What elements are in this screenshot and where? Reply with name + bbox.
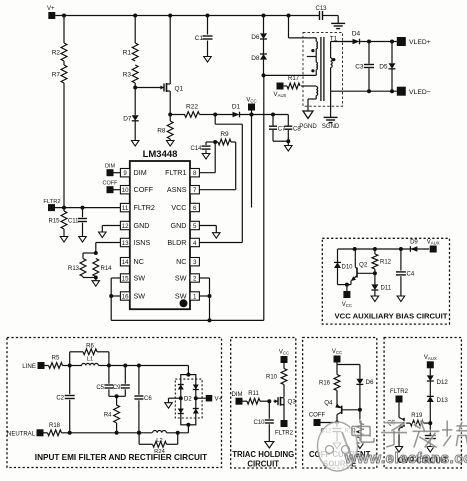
node VAUX pad aux <box>277 83 284 90</box>
svg-text:R6: R6 <box>86 344 94 350</box>
svg-text:VAUX: VAUX <box>427 240 440 246</box>
svg-text:C10: C10 <box>253 420 265 426</box>
wire to bridge <box>187 366 189 375</box>
diode D10 <box>337 249 339 262</box>
node L1 right <box>107 364 111 368</box>
svg-text:8: 8 <box>193 170 197 177</box>
svg-text:R17: R17 <box>288 76 300 82</box>
capacitor C13 <box>319 11 321 20</box>
svg-text:10: 10 <box>122 187 129 194</box>
wire gate <box>135 87 161 89</box>
svg-text:VCC AUXILIARY BIAS CIRCUIT: VCC AUXILIARY BIAS CIRCUIT <box>335 312 448 321</box>
diode D7 <box>134 88 136 116</box>
wire FLTR1 pin8 stub <box>199 172 215 174</box>
wire ASNS riser pin7 <box>235 142 237 190</box>
svg-text:SGND: SGND <box>322 124 340 130</box>
svg-text:LINE: LINE <box>22 363 36 370</box>
resistor R1 <box>134 16 136 44</box>
pin 6 VCC <box>190 203 199 211</box>
svg-text:D13: D13 <box>437 397 449 404</box>
svg-text:GND: GND <box>134 221 150 230</box>
resistor R14 <box>93 259 99 277</box>
capacitor C11 <box>82 208 84 218</box>
svg-text:D4: D4 <box>352 31 361 38</box>
svg-text:9: 9 <box>123 170 127 177</box>
wire R3 to Q1 gate <box>134 83 136 88</box>
svg-text:Q4: Q4 <box>324 400 333 407</box>
resistor R24 <box>137 431 141 435</box>
svg-text:R10: R10 <box>266 375 278 381</box>
ground bridge <box>165 403 173 409</box>
pin 13 ISNS <box>120 238 129 246</box>
svg-text:C4: C4 <box>407 272 415 278</box>
svg-text:D2: D2 <box>184 396 192 403</box>
diode D6 coff <box>359 365 361 379</box>
svg-text:4: 4 <box>193 240 197 247</box>
svg-text:D11: D11 <box>381 286 392 292</box>
ground C10 <box>265 442 274 449</box>
node C3 top <box>367 40 371 44</box>
svg-text:R13: R13 <box>68 266 80 272</box>
ground OVP cap <box>427 447 435 453</box>
svg-text:Q1: Q1 <box>175 86 184 93</box>
svg-text:D12: D12 <box>437 379 449 386</box>
capacitor C8 <box>287 115 289 126</box>
ground C7 C8 <box>285 146 293 152</box>
diode D13 <box>429 381 431 396</box>
resistor R19 <box>404 422 410 424</box>
pin 14 NC <box>120 258 129 266</box>
wire C7 C8 common <box>273 140 288 142</box>
wire Q5 emitter <box>398 428 400 446</box>
box input EMI filter and rectifier <box>7 338 222 468</box>
ground R8 <box>166 141 174 147</box>
pin 1 marker <box>180 299 188 307</box>
svg-text:L1: L1 <box>87 357 93 363</box>
svg-text:COFF: COFF <box>134 185 154 194</box>
box OVP circuit <box>384 338 461 469</box>
svg-text:TRIAC HOLDING: TRIAC HOLDING <box>232 450 294 459</box>
resistor R8 <box>168 113 172 117</box>
svg-text:5: 5 <box>193 223 197 230</box>
svg-text:DIM: DIM <box>134 168 147 177</box>
resistor R4 <box>116 396 118 405</box>
wire ISNS pin13 <box>96 242 121 244</box>
svg-text:R22: R22 <box>186 104 198 111</box>
node FLTR2 pad triac <box>283 405 285 420</box>
svg-text:D6: D6 <box>366 379 374 386</box>
wire top rail box1 <box>109 365 188 367</box>
ground D11 <box>371 296 379 302</box>
transformer aux winding <box>301 85 316 87</box>
pin 4 BLDR <box>190 238 199 246</box>
svg-text:2: 2 <box>193 275 197 282</box>
svg-text:C1: C1 <box>195 35 204 42</box>
svg-text:SW: SW <box>134 291 146 300</box>
resistor R18 <box>44 432 48 434</box>
svg-text:R11: R11 <box>248 391 259 397</box>
resistor R13 <box>83 252 96 254</box>
svg-text:Q2: Q2 <box>359 262 368 269</box>
pin 1 SW <box>190 292 199 300</box>
node VLED- pad <box>397 87 406 96</box>
svg-text:R24: R24 <box>154 449 165 455</box>
resistor R7 <box>63 61 65 65</box>
svg-text:D10: D10 <box>342 265 354 271</box>
svg-text:LM3448: LM3448 <box>143 149 178 160</box>
wire bias bottom <box>338 284 352 286</box>
svg-text:D9: D9 <box>410 240 418 246</box>
ground D7 <box>131 141 139 147</box>
svg-text:FLTR2: FLTR2 <box>275 431 294 437</box>
resistor R12 <box>374 249 376 254</box>
svg-text:INPUT EMI FILTER AND RECTIFIER: INPUT EMI FILTER AND RECTIFIER CIRCUIT <box>35 453 207 462</box>
ground C4 <box>397 296 405 302</box>
svg-text:C14: C14 <box>190 146 202 152</box>
ground C13 earth <box>331 22 345 24</box>
svg-text:SW: SW <box>175 273 187 282</box>
transistor Q1 <box>160 87 165 89</box>
pin 9 DIM <box>120 169 129 177</box>
ground PGND arrow <box>303 111 313 119</box>
wire VLED- rail <box>331 90 397 92</box>
transistor Q2 <box>354 249 356 267</box>
node primary bottom <box>263 60 265 76</box>
svg-text:VCC: VCC <box>279 350 289 356</box>
svg-text:R19: R19 <box>411 413 423 419</box>
diode D9 <box>410 246 417 252</box>
resistor R22 <box>170 114 185 116</box>
svg-text:11: 11 <box>122 205 129 212</box>
pin 10 COFF <box>120 186 129 194</box>
svg-text:VLED+: VLED+ <box>409 39 431 46</box>
svg-text:R7: R7 <box>52 72 61 79</box>
transformer core <box>320 37 322 101</box>
svg-text:R15: R15 <box>48 219 60 225</box>
inductor L2 <box>153 431 167 433</box>
svg-text:www.elecfans.com: www.elecfans.com <box>344 450 467 467</box>
svg-text:R4: R4 <box>104 413 112 419</box>
resistor R17 <box>287 83 300 89</box>
ground C1 <box>204 57 212 63</box>
svg-text:VLED−: VLED− <box>409 89 431 96</box>
ground R20 <box>356 443 364 449</box>
node NEUTRAL pad <box>37 429 44 436</box>
svg-text:FLTR2: FLTR2 <box>134 203 155 212</box>
node COFF pad coff <box>314 419 321 426</box>
wire primary bottom to D8 node <box>264 74 317 76</box>
svg-text:Q3: Q3 <box>288 399 297 406</box>
transformer T1 box <box>303 33 343 107</box>
node FLTR1 filter junction <box>213 140 217 144</box>
wire Q2 base <box>357 272 375 274</box>
wire SW pins 15 16 <box>111 277 120 279</box>
capacitor OVP <box>429 423 431 435</box>
pin 16 SW <box>120 292 129 300</box>
svg-text:GND: GND <box>171 221 187 230</box>
node V+ bridge pad <box>196 397 206 399</box>
resistor R10 <box>283 363 285 369</box>
svg-text:D5: D5 <box>379 64 388 71</box>
resistor R16 <box>336 365 338 375</box>
ground pin12 <box>99 232 107 238</box>
node D5 top <box>390 40 394 44</box>
svg-text:SW: SW <box>134 273 146 282</box>
pin 12 GND <box>120 221 129 229</box>
ground SGND <box>330 91 332 117</box>
transformer secondary winding <box>330 42 332 59</box>
wire bottom rail box1 <box>70 432 153 434</box>
diode D8 <box>263 39 265 54</box>
node L1 left <box>68 364 72 368</box>
wire D13 to R19 node <box>429 402 431 423</box>
resistor R9 <box>215 141 218 143</box>
diode D12 <box>429 368 431 375</box>
capacitor C10 <box>268 401 270 419</box>
wire GND pin5 <box>199 225 216 227</box>
pin 15 SW <box>120 274 129 282</box>
box TRIAC holding circuit <box>231 338 296 469</box>
svg-text:FLTR1: FLTR1 <box>165 168 186 177</box>
capacitor C9 <box>123 364 127 368</box>
node DIM pad triac <box>236 398 243 405</box>
resistor R20 <box>359 410 361 423</box>
svg-text:VCC: VCC <box>246 98 256 104</box>
svg-text:DIM: DIM <box>232 392 243 398</box>
node FLTR2 pad <box>48 204 55 211</box>
node Vcc pad <box>248 104 255 111</box>
transformer primary winding <box>288 16 290 38</box>
svg-text:C3: C3 <box>355 64 364 71</box>
resistor R11 <box>243 400 248 402</box>
svg-text:14: 14 <box>122 259 129 266</box>
node Vcc pad bias <box>346 285 348 291</box>
diode D1 <box>233 112 240 118</box>
svg-text:C11: C11 <box>68 219 79 225</box>
wire FLTR1 riser pin8 <box>214 142 216 173</box>
watermark elecfans logo and text <box>318 421 467 472</box>
node Vcc pad coff <box>334 356 341 363</box>
transistor Q3 <box>274 400 279 402</box>
svg-text:12: 12 <box>122 223 129 230</box>
capacitor C2 <box>69 366 71 395</box>
svg-text:SW: SW <box>175 291 187 300</box>
transistor Q5 <box>398 403 400 418</box>
op-amp U1 LM3448 body <box>130 161 190 309</box>
svg-text:R9: R9 <box>220 131 229 138</box>
pin 2 SW <box>190 274 199 282</box>
transistor Q4 <box>336 402 338 406</box>
node DIM pad <box>107 169 114 176</box>
svg-text:VCC: VCC <box>171 203 186 212</box>
wire GND pin12 <box>102 225 120 227</box>
resistor R3 <box>132 65 138 83</box>
bridge rectifier D2 <box>181 375 196 425</box>
svg-text:D1: D1 <box>232 104 241 111</box>
ground C12 <box>333 443 341 449</box>
svg-text:NC: NC <box>134 257 144 266</box>
svg-text:R12: R12 <box>380 260 392 266</box>
diode D6 <box>263 16 265 34</box>
wire C5 C9 common <box>109 395 125 397</box>
node LINE pad <box>38 362 45 369</box>
pin 11 FLTR2 <box>120 203 129 211</box>
node junction top rail <box>62 14 66 18</box>
capacitor C5 <box>108 366 110 384</box>
pin 8 FLTR1 <box>190 169 199 177</box>
svg-text:ASNS: ASNS <box>167 185 187 194</box>
wire FLTR2 to pin11 <box>55 207 120 209</box>
wire secondary top out <box>331 41 353 43</box>
svg-text:R14: R14 <box>101 266 113 272</box>
diode D4 <box>353 39 360 45</box>
svg-text:R1: R1 <box>123 50 132 57</box>
svg-text:D8: D8 <box>251 55 260 62</box>
capacitor C7 <box>271 113 275 117</box>
svg-text:C9: C9 <box>113 385 121 391</box>
ground pin5 <box>213 233 221 239</box>
pin 5 GND <box>190 221 199 229</box>
svg-text:NEUTRAL: NEUTRAL <box>7 431 36 437</box>
svg-text:NC: NC <box>176 257 186 266</box>
diode D5 <box>391 42 393 64</box>
ground R15 <box>60 237 68 243</box>
wire R7 to FLTR2 node <box>63 83 65 208</box>
node Q3 gate <box>267 399 271 403</box>
svg-text:COFF: COFF <box>103 181 119 187</box>
resistor R5 <box>45 365 49 367</box>
wire VCC riser pin6 <box>251 115 253 208</box>
svg-text:ISNS: ISNS <box>134 238 151 247</box>
ground R13 R14 <box>95 278 97 282</box>
svg-text:16: 16 <box>122 293 129 300</box>
resistor R15 <box>63 208 65 211</box>
svg-text:D6: D6 <box>251 34 260 41</box>
svg-text:R16: R16 <box>319 381 331 387</box>
svg-text:C6: C6 <box>144 396 152 402</box>
wire bridge AC- ground <box>169 397 181 399</box>
node V+ input pad <box>48 12 55 19</box>
capacitor C3 <box>368 42 370 64</box>
resistor R6 <box>69 352 71 366</box>
svg-text:DIM: DIM <box>105 164 116 170</box>
wire BLDR pin4 <box>199 242 242 244</box>
svg-text:VCC: VCC <box>332 349 342 355</box>
svg-text:PGND: PGND <box>299 124 317 130</box>
svg-text:BLDR: BLDR <box>167 238 186 247</box>
node COFF pad <box>107 186 114 193</box>
node SW-R22 junction <box>213 113 217 117</box>
svg-text:VCC: VCC <box>342 302 352 308</box>
wire vcc branch <box>336 363 338 365</box>
svg-text:13: 13 <box>122 240 129 247</box>
svg-text:R8: R8 <box>157 128 166 135</box>
svg-text:V+: V+ <box>47 6 55 12</box>
capacitor C14 <box>206 141 215 143</box>
svg-text:C2: C2 <box>56 396 64 402</box>
capacitor C4 <box>400 249 402 271</box>
pin 7 ASNS <box>190 186 199 194</box>
capacitor C12 <box>336 423 338 428</box>
node Vcc pad triac <box>281 356 288 363</box>
node VLED+ pad <box>397 37 406 46</box>
svg-text:R3: R3 <box>123 72 132 79</box>
inductor L1 <box>70 365 82 367</box>
ground Q5 <box>395 447 403 453</box>
svg-text:R5: R5 <box>52 356 60 362</box>
capacitor C1 <box>207 16 209 35</box>
svg-text:C13: C13 <box>315 6 327 12</box>
svg-text:15: 15 <box>122 275 129 282</box>
capacitor C6 <box>137 364 141 368</box>
svg-text:7: 7 <box>193 187 197 194</box>
wire V+ top rail <box>55 15 319 17</box>
svg-text:VAUX: VAUX <box>274 92 287 98</box>
node VAUX pad bias <box>430 246 437 253</box>
diode D11 <box>374 273 376 284</box>
svg-text:6: 6 <box>193 205 197 212</box>
box COFF current source <box>303 338 377 469</box>
svg-text:VAUX: VAUX <box>424 355 437 361</box>
ground C11 <box>79 237 87 243</box>
svg-text:D7: D7 <box>123 116 132 123</box>
wire aux top rail <box>338 248 430 250</box>
svg-text:R2: R2 <box>52 50 61 57</box>
wire SW riser <box>263 75 265 320</box>
svg-text:1: 1 <box>193 293 197 300</box>
svg-text:C5: C5 <box>96 385 104 391</box>
svg-text:R18: R18 <box>49 423 61 429</box>
wire ASNS pin7 stub <box>199 189 235 191</box>
pin 3 NC <box>190 258 199 266</box>
svg-text:3: 3 <box>193 259 197 266</box>
resistor R2 <box>63 16 65 44</box>
svg-text:FLTR2: FLTR2 <box>43 199 60 205</box>
wire SW pins 1 2 <box>199 277 209 279</box>
svg-text:FLTR2: FLTR2 <box>390 389 409 395</box>
node Q4 base R20 D6 <box>358 408 362 412</box>
svg-text:CIRCUIT: CIRCUIT <box>247 460 279 469</box>
svg-text:COFF: COFF <box>309 413 326 419</box>
ground C14 <box>202 154 210 160</box>
svg-text:V+: V+ <box>215 396 223 403</box>
wire BLDR riser <box>214 115 216 125</box>
box VCC auxiliary bias circuit <box>322 238 449 324</box>
wire SW bottom rail <box>111 319 264 321</box>
